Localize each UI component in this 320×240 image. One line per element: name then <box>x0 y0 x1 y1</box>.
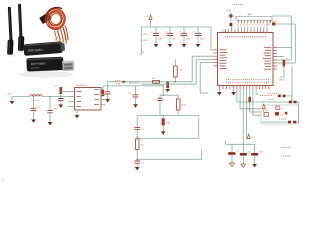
transistor Q1 <box>165 81 170 92</box>
svg-text:100n: 100n <box>200 39 204 41</box>
photo: red wire loops <box>44 7 68 41</box>
ground under C12 <box>252 164 257 167</box>
wire chain <box>136 130 138 139</box>
JP1 pin stubs <box>238 20 270 23</box>
supply arrow A2 <box>247 134 255 139</box>
svg-text:600R: 600R <box>181 104 186 106</box>
wire bundle W6 <box>253 89 261 115</box>
inductor L1 <box>30 95 42 102</box>
ground under C3 <box>182 44 187 47</box>
capacitor C12 <box>251 144 263 164</box>
wire left chain top <box>136 115 138 127</box>
capacitor C5 <box>105 92 111 99</box>
capacitor C9 <box>134 161 143 165</box>
capacitor C6 <box>128 86 139 104</box>
svg-text:IC2 MAX232: IC2 MAX232 <box>76 84 88 87</box>
svg-text:JTAG: JTAG <box>247 13 252 16</box>
net labels right cluster <box>263 94 287 119</box>
op: MCU U1 box <box>218 30 274 86</box>
ground under R7 <box>161 131 166 134</box>
wire right edge <box>298 102 300 122</box>
svg-text:10u: 10u <box>248 151 251 153</box>
wire crystal feed <box>162 85 170 95</box>
ground under CB <box>58 105 63 108</box>
svg-text:100n: 100n <box>172 39 176 41</box>
wire bundle W2 <box>240 89 261 109</box>
wire loop B <box>137 150 201 160</box>
capacitor C13 electrolytic <box>102 90 105 96</box>
resistor R6 resonator <box>176 95 186 115</box>
resistor R8 on RX net <box>152 78 159 83</box>
wire RX left drop <box>107 82 109 92</box>
capacitor C11 <box>240 144 251 164</box>
ground under C11 <box>241 164 246 167</box>
ground under CC <box>31 120 36 123</box>
wire bundle W4 <box>247 89 249 139</box>
capacitor CA electrolytic <box>54 85 68 94</box>
U1 top pin stubs <box>225 26 267 33</box>
wire resonator loop bottom <box>137 114 178 116</box>
resistor R5 <box>135 139 143 149</box>
photo: USB plug of module 2 <box>62 61 74 71</box>
svg-text:1u: 1u <box>141 128 143 130</box>
svg-text:1: 1 <box>2 178 4 182</box>
wire bundle W7 <box>256 89 259 94</box>
wire rail right drop <box>211 27 214 50</box>
photo: antenna 1 rod <box>9 8 11 40</box>
photo: antenna 2 rod <box>19 5 21 37</box>
capacitor C2 <box>165 27 176 44</box>
bottom right tiny labels <box>281 148 291 157</box>
wire rail left drop <box>140 27 148 56</box>
wire staircase L1 <box>192 56 213 82</box>
ground under C10 <box>230 163 235 166</box>
resistor R1 under D1 <box>230 23 233 26</box>
svg-text:100n: 100n <box>53 109 57 111</box>
wire resonator loop top <box>160 94 178 96</box>
svg-text:XTAL1: XTAL1 <box>116 83 123 86</box>
resistor R3 in cluster <box>276 106 284 110</box>
diode D3 <box>294 101 297 104</box>
diode D5 <box>283 95 292 101</box>
ground under C2 <box>168 44 173 47</box>
wire D1 cathode <box>230 18 232 23</box>
wire loop A <box>137 115 199 138</box>
photo: radio module 2 <box>26 57 63 72</box>
wire R2 net <box>266 23 295 25</box>
svg-text:100n: 100n <box>186 39 190 41</box>
U1 left pin stubs <box>214 50 218 66</box>
ground under C5 <box>105 99 110 102</box>
capacitor CB <box>58 94 64 105</box>
ground under C4 <box>196 44 201 47</box>
JP1 pin label row <box>238 24 271 26</box>
supply flag left <box>8 93 15 104</box>
capacitor CC <box>31 97 40 120</box>
svg-text:100n: 100n <box>259 151 263 153</box>
wires JP1 to U1 <box>238 26 267 29</box>
capacitor C8 <box>134 127 143 130</box>
svg-text:915 MHz: 915 MHz <box>31 67 40 69</box>
resistor R9 vertical <box>174 59 183 82</box>
diode D7 <box>293 121 296 124</box>
wire right down to cluster <box>279 66 292 102</box>
wire header right to rail <box>272 15 291 17</box>
svg-text:+3V: +3V <box>144 16 148 18</box>
supply +3V3 arrow <box>144 15 152 20</box>
wire chain 2 <box>136 149 138 161</box>
svg-text:100n: 100n <box>158 39 162 41</box>
photo: antenna 2 base <box>18 36 25 51</box>
wire cap cluster top <box>226 141 255 145</box>
U1 left pin name rows <box>220 50 228 69</box>
IC2 right pin names <box>94 90 99 105</box>
resistor R2 top right <box>267 21 278 25</box>
wire VIN net <box>12 96 30 98</box>
diode D4 <box>278 95 281 98</box>
net label mid <box>140 53 143 55</box>
U1 bottom pin number rows <box>226 80 270 83</box>
U1 bottom right pin labels <box>260 95 272 97</box>
wire VIN net 2 <box>33 96 68 98</box>
svg-text:L1 10uH: L1 10uH <box>32 100 40 102</box>
svg-text:PWR: PWR <box>226 10 232 12</box>
resistor R7 below resonator <box>162 115 171 132</box>
ground under C6 <box>133 104 138 107</box>
wire RX net <box>108 81 193 83</box>
transistor Q3 in cluster <box>275 112 284 117</box>
wire chain 3 <box>136 163 138 167</box>
wire VCC rail <box>141 26 211 28</box>
diode D6 <box>288 121 291 124</box>
capacitor C7 resonator <box>153 95 163 115</box>
ground under U1 pin5 <box>231 89 236 95</box>
svg-text:1u: 1u <box>141 163 143 165</box>
wire supply stem <box>150 20 152 27</box>
wire right vertical bus 2 <box>294 24 296 63</box>
wire bundle W1 <box>237 89 250 102</box>
wire right vertical bus 1 <box>290 16 292 60</box>
U1 right pin stubs <box>273 48 277 70</box>
photo: cable connector <box>39 12 52 24</box>
photo: antenna 1 base <box>7 40 13 55</box>
svg-text:VIN: VIN <box>8 93 12 95</box>
svg-text:10k: 10k <box>140 145 143 147</box>
ground under CD <box>48 122 53 125</box>
net label top left <box>0 0 1 1</box>
svg-text:10k: 10k <box>179 70 182 72</box>
svg-text:GND: GND <box>143 40 148 42</box>
svg-text:VDD: VDD <box>143 34 148 36</box>
resistor R4 in cluster <box>264 113 268 117</box>
op-amp IC2 box <box>75 84 102 110</box>
capacitor CD <box>47 97 57 123</box>
capacitor C10 <box>228 144 239 163</box>
ground under C1 <box>154 44 159 47</box>
page number text <box>2 178 4 182</box>
svg-text:3DR Radio: 3DR Radio <box>30 61 46 66</box>
ground chain <box>135 167 140 170</box>
wire staircase L3 <box>200 63 213 93</box>
bottom right cluster box <box>261 105 299 124</box>
capacitor C3 <box>179 27 190 44</box>
IC2 right pins <box>101 86 105 105</box>
IC2 left pins <box>68 92 75 107</box>
transistor Q2 right <box>283 58 290 66</box>
wire U1 right pin nets <box>277 48 295 64</box>
svg-text:VBUS: VBUS <box>279 80 285 82</box>
diode D2 <box>289 101 292 104</box>
svg-text:10u: 10u <box>236 151 239 153</box>
ground under U1 pin1 <box>217 89 222 95</box>
wire net Y122 <box>261 121 299 123</box>
U1 bottom pin stubs <box>219 86 269 90</box>
LED D1 <box>226 10 232 18</box>
ground under IC2 <box>75 110 80 118</box>
supply arrow A3 <box>262 104 265 112</box>
svg-text:1n: 1n <box>153 99 155 101</box>
photo: radio module 1 <box>23 41 65 56</box>
U1 right pin name rows <box>263 48 271 70</box>
wire net Y102 <box>250 101 299 103</box>
header JP1 box <box>236 13 272 20</box>
resistor marks in cluster <box>269 99 288 114</box>
wire bundle W5 with transistor T1 <box>248 89 261 112</box>
wire staircase L2 <box>129 59 214 84</box>
net label row above header <box>233 4 244 6</box>
U1 top pin number row <box>225 36 267 38</box>
wire bundle W3 <box>242 89 244 144</box>
svg-text:10u: 10u <box>37 106 40 108</box>
capacitor C1 <box>151 27 162 44</box>
capacitor C4 <box>193 27 204 44</box>
photo: shadow under modules <box>6 51 73 78</box>
photo: cable pin tips <box>55 37 69 44</box>
wire XTAL net <box>103 83 163 86</box>
IC2 left pin names <box>77 92 82 107</box>
